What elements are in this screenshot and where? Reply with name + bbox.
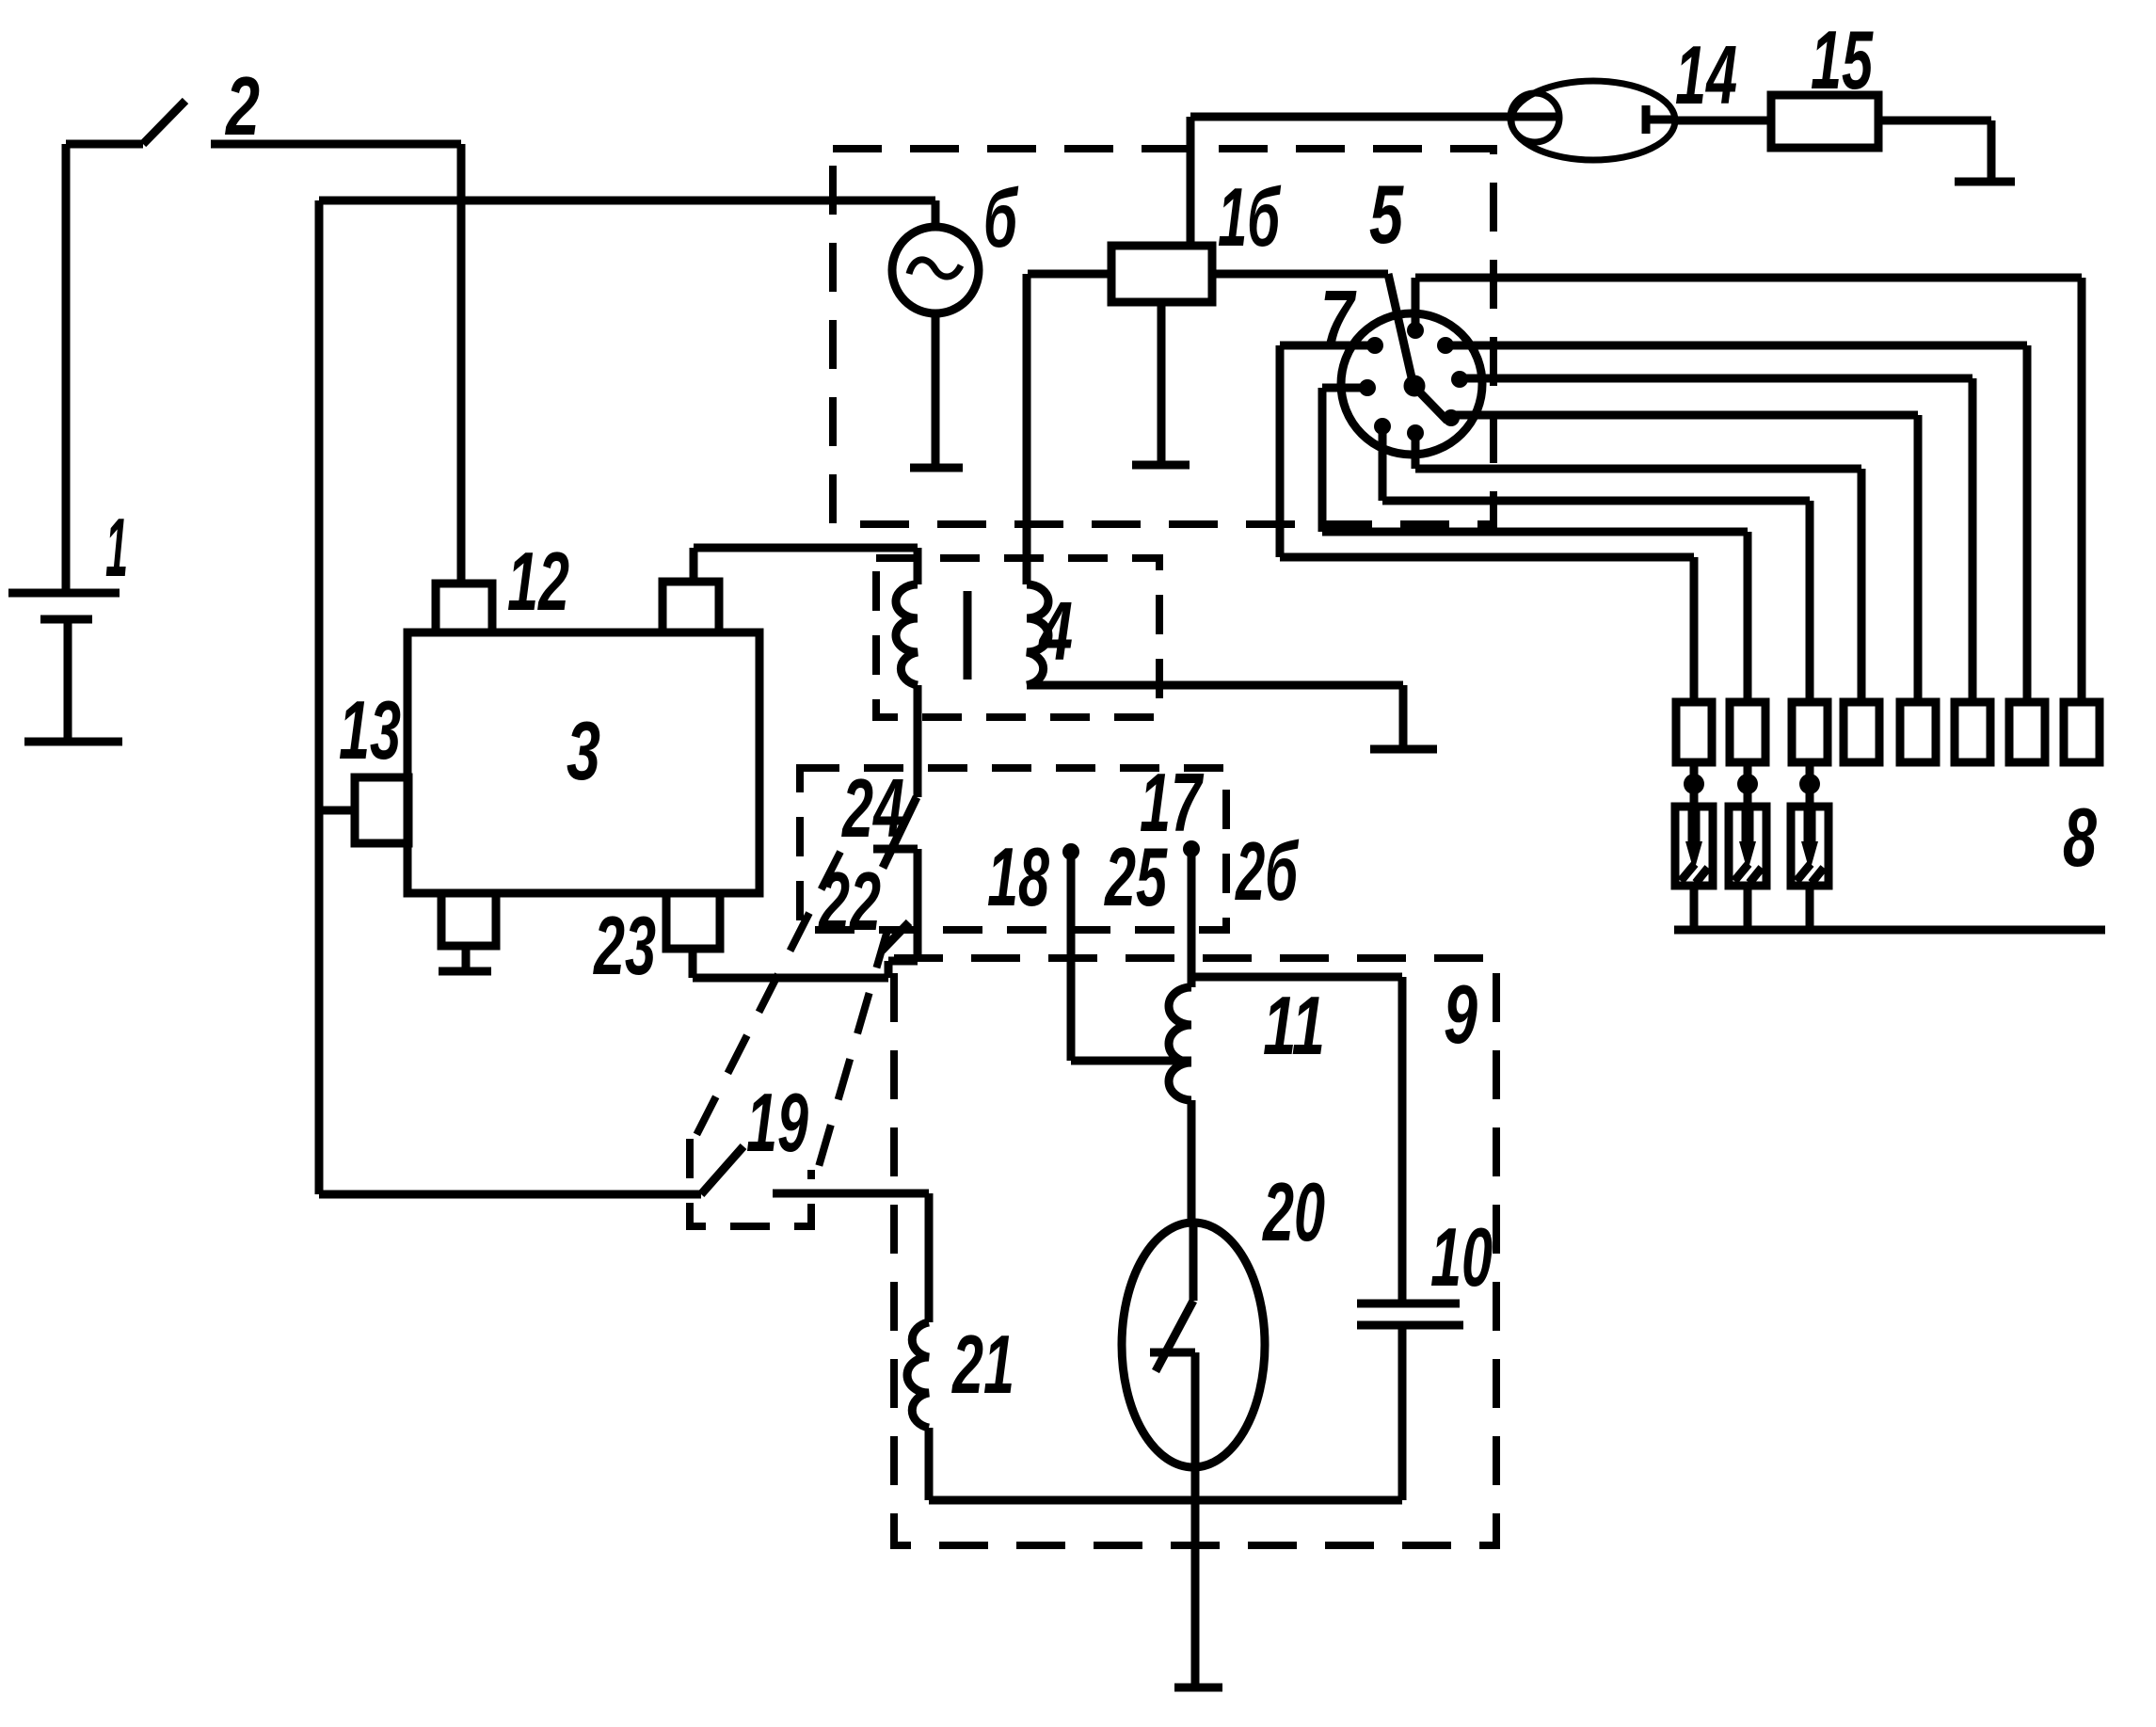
spark plug connector boxes 8 — [1676, 702, 2100, 762]
common bus of arresters — [1674, 926, 2105, 935]
svg-text:18: 18 — [987, 830, 1049, 923]
svg-text:5: 5 — [1369, 168, 1404, 261]
contact 24 — [883, 797, 917, 868]
AC source 6 — [892, 200, 979, 465]
svg-text:б: б — [983, 171, 1019, 264]
ground (below lamp 20) — [1174, 1684, 1222, 1692]
svg-text:23: 23 — [593, 899, 656, 992]
probe point 18 — [1062, 843, 1191, 1061]
spark gap arrester column 3 — [1791, 762, 1829, 930]
resistor 15 — [1676, 95, 1991, 179]
terminal 13 — [319, 777, 408, 843]
wire top to discharger 14 — [1190, 113, 1557, 121]
wire plug column 7 — [1445, 345, 2027, 702]
ground (below AC source 6) — [910, 464, 963, 472]
switch 19 — [319, 1146, 929, 1194]
dashed linkage line from contact 22 to switch 19 — [811, 927, 888, 1192]
capacitor 10 — [1357, 1303, 1463, 1500]
dashed linkage line from contact 24 to switch 19 — [694, 852, 840, 1141]
ground (below fuse 16) — [1132, 461, 1190, 470]
lamp 20 — [1122, 1222, 1265, 1684]
distributor 7 — [1341, 313, 1482, 455]
svg-text:14: 14 — [1675, 28, 1737, 121]
ground (transformer 4 secondary) — [1370, 745, 1437, 754]
spark gap arrester column 2 — [1729, 762, 1766, 930]
svg-text:8: 8 — [2063, 791, 2097, 884]
bus wire bottom — [929, 1496, 1402, 1505]
svg-text:20: 20 — [1262, 1165, 1325, 1258]
coil 11 — [1169, 987, 1191, 1222]
svg-text:21: 21 — [951, 1318, 1014, 1411]
wire plug column 6 — [1460, 378, 1972, 702]
svg-text:11: 11 — [1263, 979, 1325, 1072]
svg-text:19: 19 — [746, 1076, 808, 1169]
svg-text:2б: 2б — [1235, 824, 1300, 918]
svg-text:25: 25 — [1104, 830, 1168, 923]
fuse 16 — [1028, 117, 1388, 462]
svg-text:1б: 1б — [1218, 170, 1282, 264]
ground (box 3 bottom terminal) — [439, 967, 491, 976]
dashed box 17 — [800, 768, 1226, 930]
svg-text:3: 3 — [567, 704, 600, 797]
transformer 4 core — [964, 591, 972, 680]
wire to capacitor 10 — [1191, 977, 1402, 1303]
terminal 12 — [436, 584, 492, 632]
wire from switch down to terminal 12 — [457, 144, 466, 584]
svg-text:1: 1 — [105, 501, 128, 594]
probe point 25 — [1183, 840, 1200, 987]
wire plug column 2 — [1322, 388, 1748, 702]
transformer 4 primary coil — [896, 548, 918, 797]
transformer 4 dashed box — [876, 558, 1159, 717]
svg-text:15: 15 — [1811, 13, 1874, 106]
wire plug column 4 — [1415, 433, 1861, 702]
top-right terminal of box 3 — [663, 548, 918, 632]
wire plug column 3 — [1382, 426, 1810, 702]
svg-text:22: 22 — [818, 855, 881, 948]
dashed housing box (distributor unit) — [833, 149, 1493, 524]
bottom-left terminal of box 3 with ground — [441, 893, 496, 968]
box 3 control unit — [407, 632, 759, 893]
dashed box around switch 19 — [690, 1139, 811, 1226]
wire plug column 1 — [1280, 345, 1694, 702]
wire long left vertical to switch 19 — [319, 200, 935, 1194]
rotor 5 — [1388, 274, 1447, 421]
distributor contact dots — [1359, 322, 1468, 441]
ground (after resistor 15) — [1955, 178, 2015, 186]
svg-text:12: 12 — [507, 535, 569, 628]
svg-text:13: 13 — [339, 683, 401, 776]
spark gap arrester column 1 — [1675, 762, 1713, 930]
svg-text:2: 2 — [225, 59, 261, 152]
dashed box 9 — [894, 958, 1496, 1545]
contact 22 — [873, 849, 918, 961]
svg-text:10: 10 — [1430, 1210, 1493, 1303]
wire plug column 5 — [1451, 415, 1918, 702]
svg-text:7: 7 — [1320, 273, 1357, 366]
coil 21 — [907, 1193, 929, 1500]
discharger 14 — [1510, 81, 1676, 160]
battery 1 — [8, 144, 122, 742]
transformer 4 secondary coil — [1027, 274, 1403, 746]
switch 2 — [66, 101, 461, 144]
wire plug 8 column 8 — [1415, 278, 2082, 702]
terminal 23 of box 3 — [666, 893, 918, 978]
svg-text:9: 9 — [1444, 967, 1477, 1061]
